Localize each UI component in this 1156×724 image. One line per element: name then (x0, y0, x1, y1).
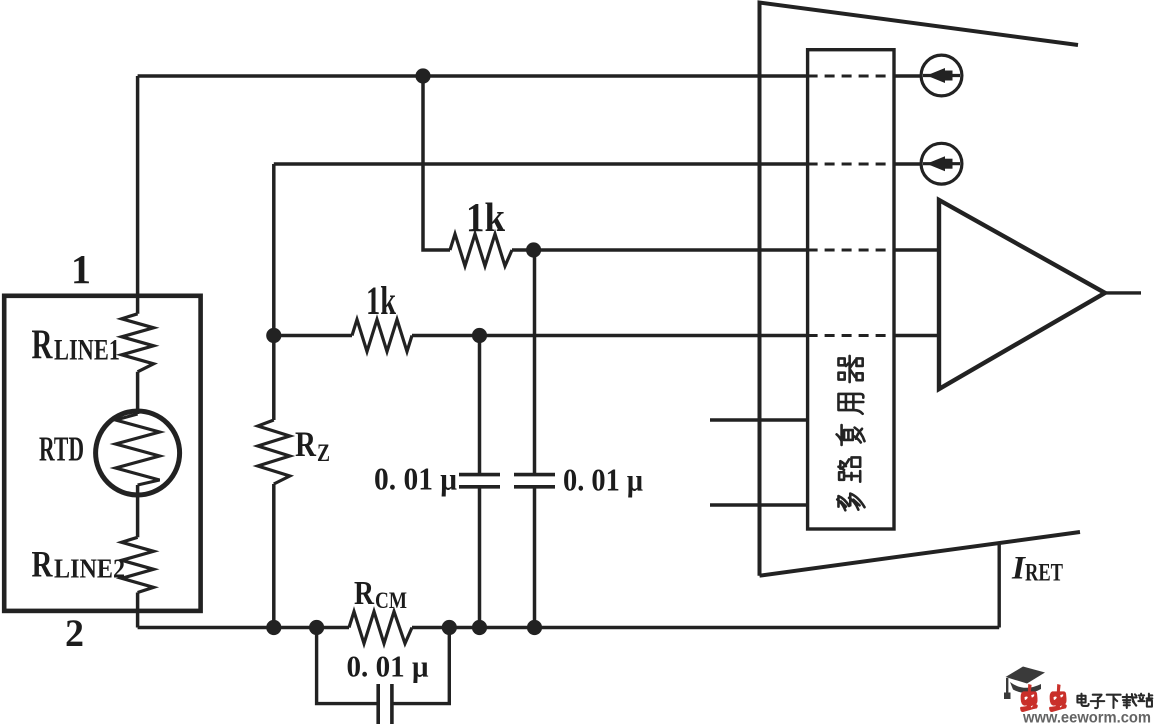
wire cap column C1 lower (478, 487, 482, 628)
capacitor C1 0.01u (459, 475, 500, 487)
current source CS1 (921, 55, 962, 96)
junction node RZ/bus (266, 620, 281, 635)
wire cap column C1 upper (478, 336, 482, 475)
junction node bypass right (442, 620, 457, 635)
wire row2 (RZ top to mux) (274, 162, 808, 166)
wire terminal2 vertical to bus (136, 593, 140, 628)
stub input wire lower (710, 503, 808, 507)
wire row2 mux to current source (894, 162, 921, 166)
junction node C2/bus (527, 620, 542, 635)
wire cap column C2 lower (533, 487, 537, 628)
wire row4 (RZ junction to 1k R2) (274, 334, 352, 338)
svg-text:0. 01 μ: 0. 01 μ (347, 649, 429, 684)
svg-text:2: 2 (65, 612, 84, 655)
svg-text:1: 1 (71, 246, 91, 292)
bypass loop left vertical (317, 628, 379, 704)
multiplexer box U2 (808, 50, 894, 529)
wire terminal1 vertical into box (136, 76, 140, 314)
svg-text:I: I (1011, 551, 1026, 587)
svg-text:0. 01 μ: 0. 01 μ (374, 461, 457, 497)
watermark 虫虫 red (1020, 684, 1067, 712)
ADC chip outline (760, 3, 1081, 576)
svg-text:LINE1: LINE1 (54, 334, 120, 367)
junction node row1/R1 (415, 68, 430, 83)
bottom bus wire left (138, 626, 349, 629)
junction node RZ/row4 (266, 328, 281, 343)
capacitor C3 0.01u plates (378, 684, 392, 724)
wire row1 mux to current source (894, 74, 921, 78)
wire row3 mux to op-amp (894, 248, 939, 252)
stub input wire upper (710, 418, 808, 422)
svg-text:CM: CM (375, 588, 407, 613)
svg-text:www.eeworm.com: www.eeworm.com (1022, 710, 1151, 724)
svg-text:R: R (295, 424, 317, 464)
wire vertical from row1 junction down to 1k R1 (423, 76, 450, 250)
svg-text:1k: 1k (466, 194, 505, 240)
svg-text:R: R (32, 323, 53, 369)
wire row4 to mux (412, 334, 808, 338)
bottom bus wire right (412, 626, 999, 629)
wire cap column C2 upper (533, 250, 537, 475)
svg-text:R: R (32, 545, 54, 586)
svg-text:R: R (354, 575, 374, 612)
wire row3 dashed inside mux (808, 249, 894, 252)
svg-text:RET: RET (1025, 560, 1063, 587)
bypass loop right vertical (392, 628, 449, 704)
RTD element zigzag (116, 414, 160, 485)
wire row1 top (terminal 1 to mux) (138, 74, 808, 78)
resistor R1 1k (top) (450, 234, 512, 266)
resistor R2 1k (middle) (352, 320, 412, 352)
wire op-amp output (1105, 291, 1141, 294)
wire row3 (R1 to mux) (512, 248, 808, 252)
wire IRET vertical (998, 543, 1001, 627)
wire RLINE1 to RTD (136, 372, 140, 414)
junction node row3/C2 (526, 242, 541, 257)
watermark graduation cap (1004, 667, 1045, 700)
RTD sensor box (4, 296, 200, 611)
capacitor C2 0.01u (514, 475, 555, 487)
wire RTD to RLINE2 (136, 485, 140, 537)
op-amp U1 (939, 200, 1105, 389)
RTD circle (96, 411, 180, 495)
svg-text:LINE2: LINE2 (54, 554, 125, 584)
svg-text:RTD: RTD (39, 430, 84, 469)
wire row2 corner down to RZ (272, 164, 276, 420)
svg-text:0. 01 μ: 0. 01 μ (563, 462, 643, 498)
current source CS2 (921, 143, 962, 184)
resistor RLINE1 (122, 314, 154, 372)
junction node C1/bus (472, 620, 487, 635)
resistor RCM (349, 612, 412, 644)
wire row2 dashed inside mux (808, 163, 894, 166)
svg-text:Z: Z (317, 440, 330, 467)
resistor RZ (258, 420, 290, 484)
multiplexer label 多路复用器 (rotated) (837, 356, 865, 510)
wire row4 dashed inside mux (808, 334, 894, 337)
wire RZ to bus (272, 484, 276, 628)
resistor RLINE2 (122, 537, 154, 592)
svg-text:1k: 1k (366, 278, 397, 323)
junction node bypass left (309, 620, 324, 635)
watermark 电子下载站 (1077, 694, 1152, 708)
wire row1 dashed inside mux (808, 75, 894, 78)
junction node row4/C1 (472, 328, 487, 343)
wire row4 mux to op-amp (894, 334, 939, 338)
